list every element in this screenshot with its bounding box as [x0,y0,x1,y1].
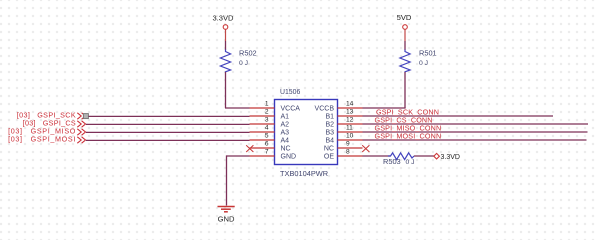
power symbol 3.3VD (top left) [212,14,234,30]
svg-text:3.3VD: 3.3VD [441,154,460,161]
wire pin 13 to GSPI_SCK_CONN [363,115,554,117]
svg-text:5: 5 [265,133,269,140]
wire pin 7 GND down [227,155,250,205]
svg-text:B4: B4 [325,137,334,144]
off-page connector [03] GSPI_CS [23,119,86,128]
net marker box on GSPI_SCK wire [83,114,88,119]
no-connect X on pin 9 [362,145,369,152]
svg-text:9: 9 [346,141,350,148]
svg-text:4: 4 [265,125,269,132]
wire 3.3VD to R502 [225,30,227,51]
svg-text:0 J: 0 J [419,60,428,67]
svg-text:A3: A3 [281,129,290,136]
svg-text:3: 3 [265,117,269,124]
U1506 pin 6 NC [250,141,291,153]
wire GSPI_MISO to pin 4 [86,131,250,133]
wire pin 8 OE to R503 [363,155,391,157]
power symbol 3.3VD (right) [434,153,460,161]
U1506 pin 13 B1 [325,109,362,121]
wire R501 to pin 14 of U1506 [363,72,406,108]
off-page connector [03] GSPI_SCK [17,111,86,120]
svg-text:R501: R501 [419,49,437,58]
U1506 pin 3 A2 [250,117,290,129]
U1506 pin 9 NC [324,141,363,153]
svg-text:2: 2 [265,109,269,116]
svg-text:NC: NC [281,145,291,152]
svg-text:TXB0104PWR: TXB0104PWR [280,169,328,178]
svg-text:0 J: 0 J [406,159,415,166]
U1506 pin 11 B3 [325,125,362,137]
off-page connector [03] GSPI_MOSI [8,135,85,144]
svg-text:B2: B2 [325,121,334,128]
svg-text:A1: A1 [281,113,290,120]
U1506 pin 8 OE [324,149,363,161]
wire pin 10 to GSPI_MOSI_CONN [363,139,587,141]
off-page connector [03] GSPI_MISO [8,127,85,136]
svg-text:B1: B1 [325,113,334,120]
svg-text:U1506: U1506 [280,89,300,96]
svg-text:B3: B3 [325,129,334,136]
svg-text:13: 13 [346,109,354,116]
wire R503 to 3.3VD [414,155,434,157]
svg-text:GND: GND [218,214,235,223]
no-connect X on pin 6 [246,145,253,152]
svg-text:8: 8 [346,149,350,156]
svg-text:7: 7 [265,149,269,156]
ground symbol [218,207,235,212]
svg-text:14: 14 [346,101,354,108]
svg-text:5VD: 5VD [397,13,412,22]
svg-text:3.3VD: 3.3VD [212,14,234,23]
wire GSPI_CS to pin 3 [86,123,250,125]
svg-text:OE: OE [324,153,334,160]
svg-text:0 J: 0 J [239,60,248,67]
svg-text:VCCA: VCCA [281,105,301,112]
wire GSPI_MOSI to pin 5 [86,139,250,141]
wire 5VD to R501 [404,30,406,51]
resistor R501 [400,49,437,73]
resistor R503 [383,153,415,166]
wire pin 12 to GSPI_CS_CONN [363,123,589,125]
svg-text:R502: R502 [239,49,257,58]
wire R502 to pin 1 of U1506 [225,72,250,108]
svg-text:NC: NC [324,145,334,152]
svg-text:6: 6 [265,141,269,148]
U1506 pin 10 B4 [325,133,362,145]
resistor R502 [220,49,256,73]
U1506 pin 12 B2 [325,117,362,129]
svg-text:1: 1 [265,101,269,108]
U1506 pin 5 A4 [250,133,290,145]
svg-text:[03] GSPI_MOSI: [03] GSPI_MOSI [8,135,76,144]
svg-text:A4: A4 [281,137,290,144]
U1506 pin 1 VCCA [250,101,301,113]
svg-text:A2: A2 [281,121,290,128]
wire GSPI_SCK to pin 2 [89,115,250,117]
U1506 pin 7 GND [250,149,297,161]
op IC U1506 body [275,89,338,178]
svg-text:12: 12 [346,117,354,124]
svg-text:VCCB: VCCB [315,105,335,112]
svg-text:GSPI_MOSI_CONN: GSPI_MOSI_CONN [375,132,442,141]
svg-text:10: 10 [346,133,354,140]
svg-text:GND: GND [281,153,297,160]
power symbol 5VD (top right) [397,13,412,29]
wire pin 11 to GSPI_MISO_CONN [363,131,588,133]
U1506 pin 2 A1 [250,109,290,121]
svg-text:11: 11 [346,125,353,132]
U1506 pin 4 A3 [250,125,290,137]
U1506 pin 14 VCCB [315,101,363,113]
svg-text:R503: R503 [383,157,401,166]
